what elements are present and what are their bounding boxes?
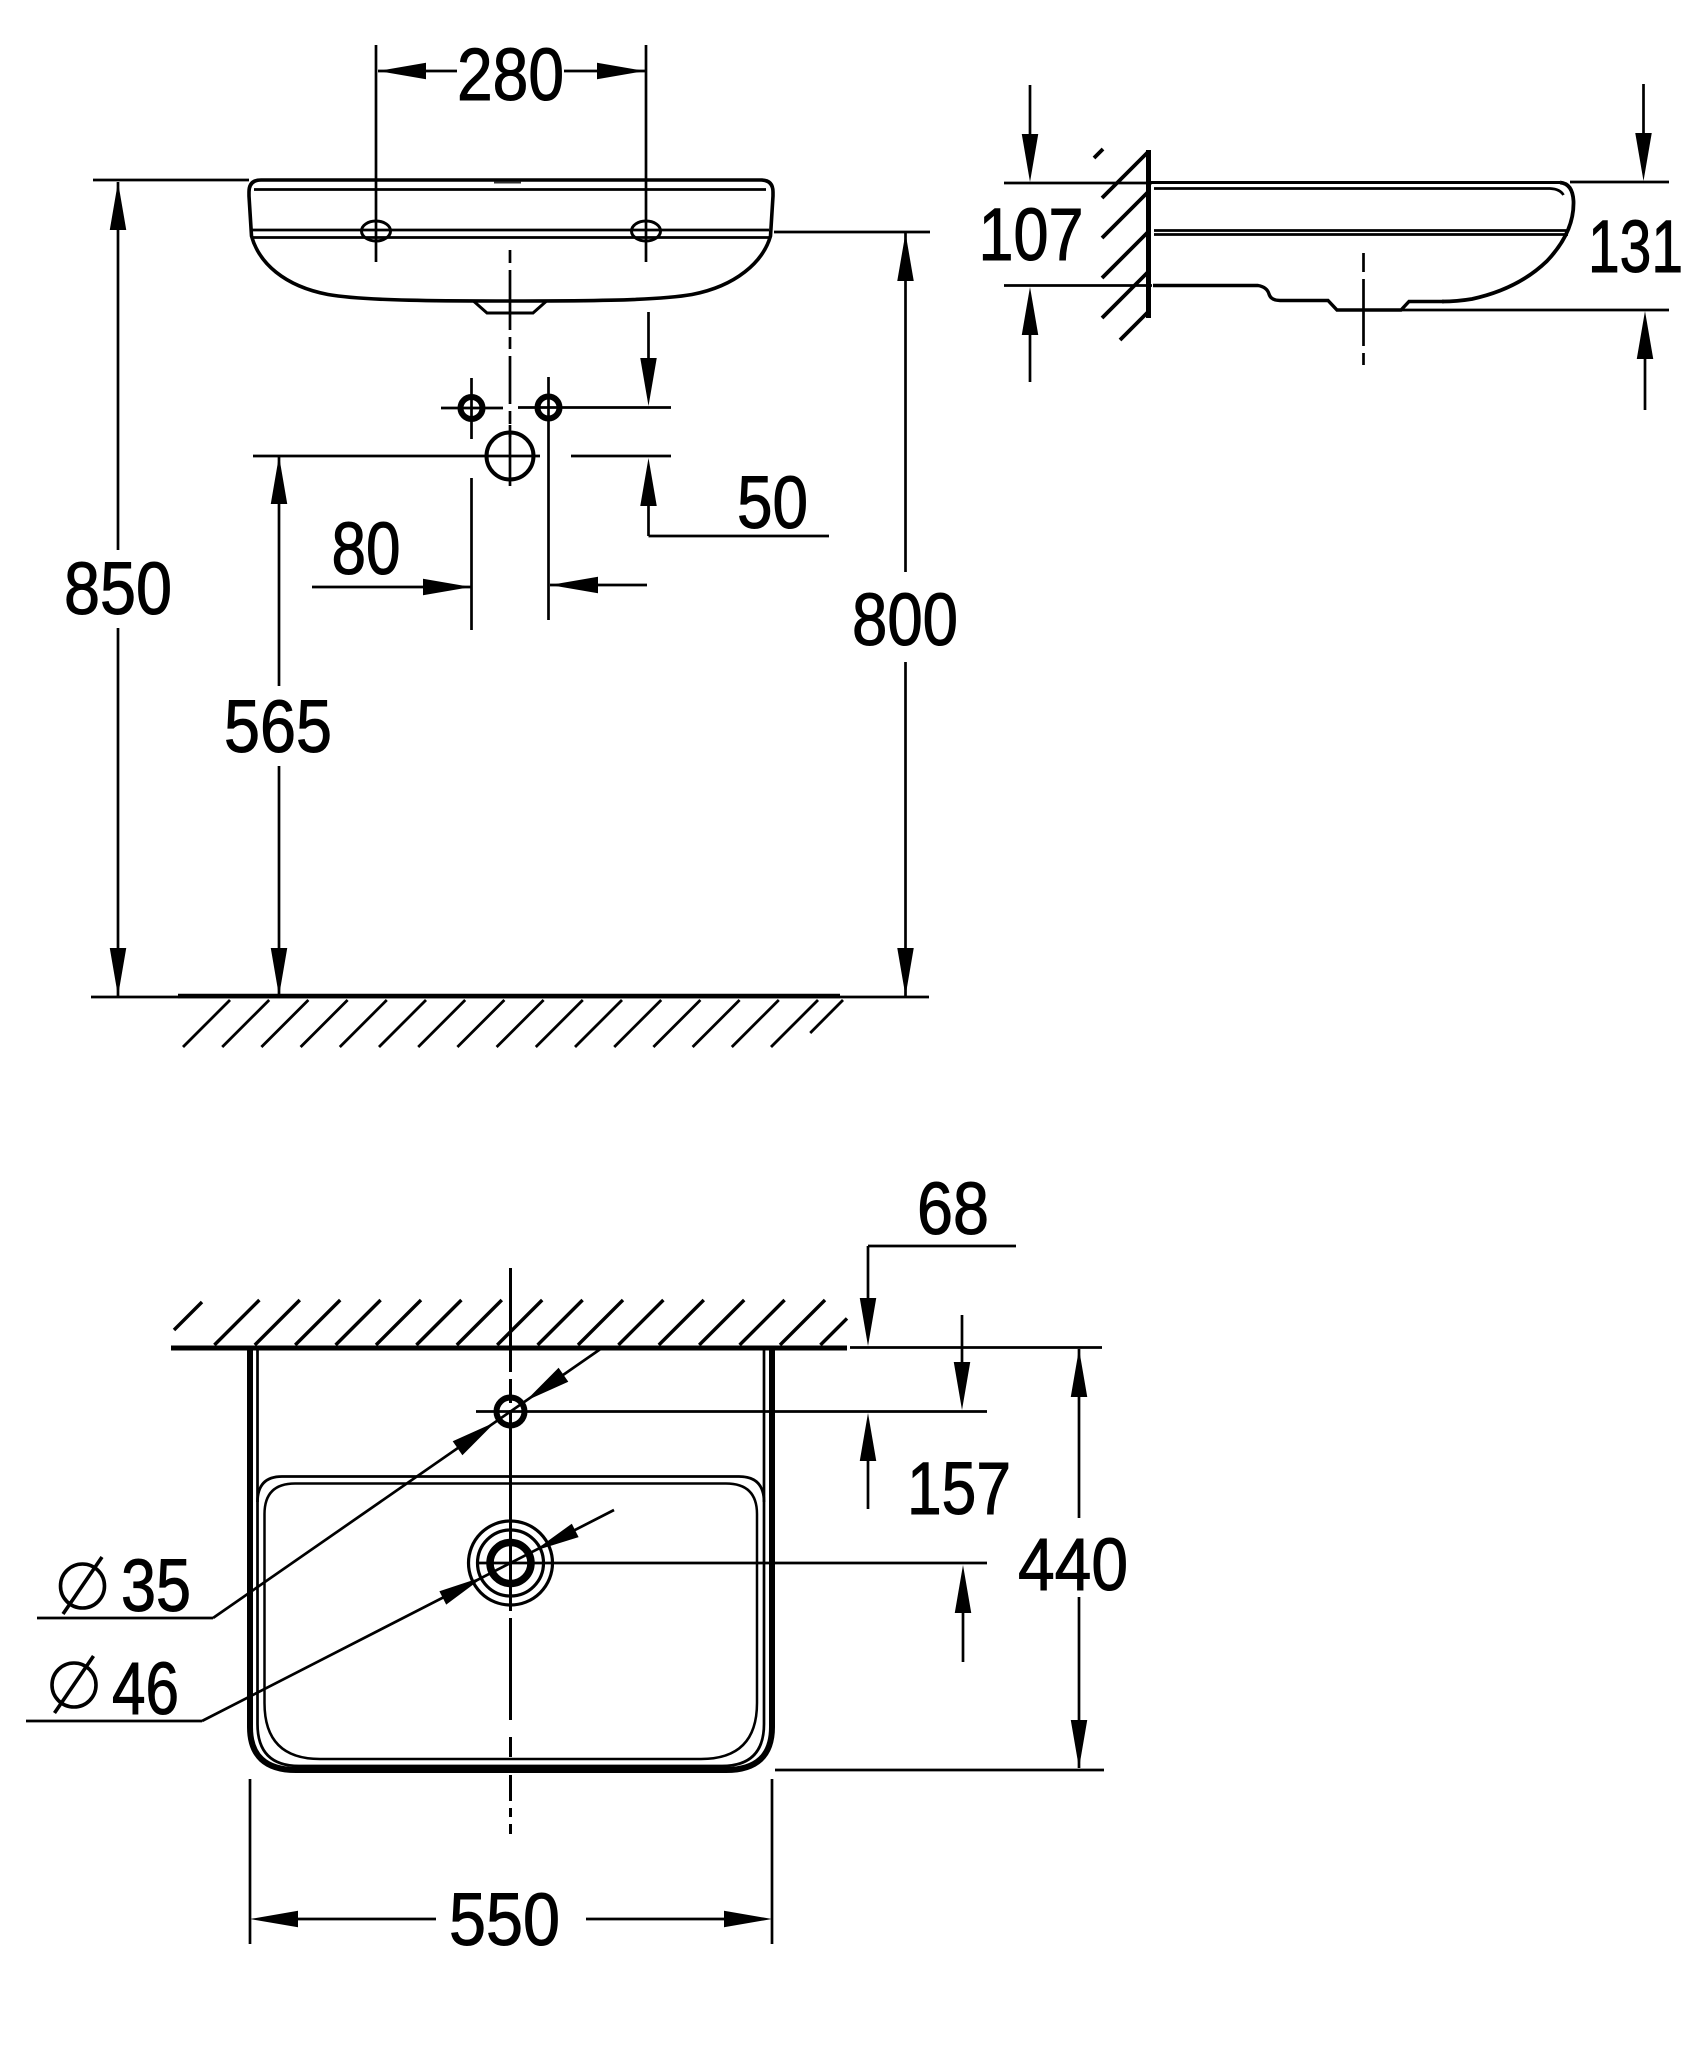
svg-text:68: 68: [917, 1167, 989, 1250]
dim 68 leader: [868, 1245, 1016, 1248]
leader 50: [649, 535, 830, 538]
svg-text:131: 131: [1588, 205, 1683, 288]
center line top view: [509, 1268, 512, 1720]
ext 131 top: [1570, 181, 1669, 184]
dim 80 right: [550, 584, 647, 587]
label dia35: [61, 1564, 105, 1608]
line through drain left: [253, 455, 540, 458]
dim 280 line left: [378, 70, 457, 73]
ext 550 right: [771, 1779, 774, 1944]
ground line thick: [178, 994, 840, 998]
deck slot mark: [494, 182, 521, 184]
ext 550 left: [249, 1779, 252, 1944]
dim 157: [961, 1315, 964, 1362]
svg-text:440: 440: [1018, 1523, 1128, 1606]
ext+deck top line: [1004, 182, 1152, 185]
drain circle front: [487, 433, 534, 480]
basin outer rect: [250, 1346, 772, 1770]
leader dia46: [26, 1720, 202, 1723]
dim 80 left: [312, 586, 471, 589]
dim 565: [278, 456, 281, 686]
svg-text:280: 280: [457, 33, 564, 116]
dim 131 top: [1642, 84, 1645, 133]
svg-text:46: 46: [112, 1647, 179, 1730]
faucet hole top view: [497, 1398, 525, 1426]
bottom profile: apron, step, trap: [1153, 286, 1444, 311]
mounting hole right: [632, 221, 661, 241]
dim 800: [904, 233, 907, 572]
dim 131 bottom: [1637, 311, 1654, 359]
ext 131 bottom: [1398, 309, 1669, 312]
dim 850: [117, 182, 120, 550]
ext 107 bottom: [1004, 284, 1152, 287]
bowl lip line: [265, 1484, 758, 1760]
ext wall right: [850, 1346, 1102, 1349]
dim 107 top: [1029, 85, 1032, 134]
ext line 280 left: [375, 45, 378, 262]
center line side: [1362, 253, 1365, 272]
drain top view: [490, 1543, 531, 1584]
ext line 80 left: [470, 478, 473, 630]
rim pair side: [1154, 229, 1569, 232]
ext line 280 right: [645, 45, 648, 262]
ext line 800 top: [774, 231, 930, 234]
ground line thin: [91, 996, 929, 999]
center line: [509, 250, 512, 437]
wall hatching top view: [174, 1300, 847, 1345]
leader dia35: [37, 1617, 213, 1620]
rim line upper: [252, 229, 769, 232]
line through drain right: [571, 455, 671, 458]
dim 550: [250, 1911, 298, 1928]
drain line: [477, 1562, 987, 1565]
svg-text:565: 565: [224, 685, 332, 768]
ext 440 bottom: [775, 1769, 1104, 1772]
svg-text:800: 800: [852, 578, 958, 661]
ground hatching: [183, 1000, 843, 1047]
faucet hole left front: [461, 397, 483, 419]
rim line lower: [252, 236, 769, 239]
faucet hole line: [476, 1410, 987, 1413]
svg-text:35: 35: [121, 1544, 191, 1627]
dim 107 bottom: [1022, 287, 1039, 335]
deck inner line: [254, 188, 766, 191]
basin outline front: [249, 180, 773, 301]
drain circle crosshair v: [509, 425, 512, 486]
svg-text:80: 80: [332, 507, 401, 590]
wall hatches side: [1094, 149, 1148, 340]
svg-text:850: 850: [64, 547, 172, 630]
trap front: [474, 302, 546, 314]
svg-text:50: 50: [737, 461, 808, 544]
svg-text:157: 157: [907, 1447, 1011, 1530]
faucet hole right front: [538, 397, 560, 419]
ext line 80 right: [547, 425, 550, 620]
label dia46: [52, 1663, 96, 1707]
deck back line: [1154, 189, 1564, 196]
dim 440: [1078, 1349, 1081, 1518]
wall line side: [1146, 150, 1151, 318]
svg-text:550: 550: [449, 1878, 560, 1961]
wall line top view: [171, 1346, 847, 1351]
mounting hole left: [362, 221, 391, 241]
ext line 850 top: [93, 179, 249, 182]
dim 280 line right: [564, 70, 645, 73]
basin inner offset: [258, 1346, 765, 1766]
right profile curve: [1442, 183, 1574, 302]
bowl outline: [258, 1477, 765, 1503]
svg-text:107: 107: [979, 193, 1084, 276]
dim 50 lower: [640, 458, 657, 506]
dim 50 upper: [647, 312, 650, 360]
